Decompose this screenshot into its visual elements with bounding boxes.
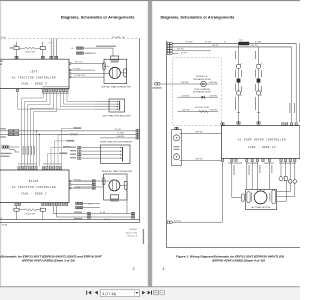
svg-text:LINE RED: LINE RED <box>195 159 204 161</box>
accessory dashed enclosure <box>173 58 222 126</box>
connector M2 right oval <box>124 181 127 189</box>
sense component c <box>288 180 292 184</box>
schematic frame right edge <box>139 39 141 223</box>
resistor R3 <box>199 110 208 112</box>
wire key input 3 to U1 <box>55 39 57 57</box>
svg-text:-LINE RED: -LINE RED <box>181 95 190 97</box>
label M3 right <box>268 193 271 202</box>
label horn <box>174 146 180 147</box>
svg-text:DISCHARGE DIODE: DISCHARGE DIODE <box>193 90 211 93</box>
svg-text:B+ 4A: B+ 4A <box>100 211 106 214</box>
svg-text:B+ RED: B+ RED <box>255 42 262 44</box>
svg-text:Diagrams, Schematics or Arrang: Diagrams, Schematics or Arrangements <box>161 15 235 20</box>
wire M2 right down <box>120 185 127 213</box>
pin A2 on U1 top <box>41 56 44 58</box>
svg-text:B+ RED: B+ RED <box>181 52 188 54</box>
encoder EN1 disc bar <box>119 101 121 111</box>
button save icon <box>160 290 165 295</box>
pin labels U3 bottom <box>228 163 242 164</box>
pin KSI on U1 top <box>50 56 53 58</box>
bottom bus 459 4A <box>0 222 140 224</box>
input dropdown divider <box>133 290 135 297</box>
bus 459 YEL <box>173 46 292 48</box>
pin row U2 top left <box>18 167 37 170</box>
motor M2 brush line 1 <box>111 181 113 191</box>
pin labels U1 bottom <box>42 93 69 94</box>
pin horn top <box>175 127 178 129</box>
svg-text:AC TRACTION CONTROLLER: AC TRACTION CONTROLLER <box>12 186 56 189</box>
wire U3 phase V pump <box>251 162 253 190</box>
label RT1 line 1 <box>1 153 12 154</box>
op-box U2 RIGHT AC TRACTION CONTROLLER <box>0 170 69 203</box>
connector CN6 <box>76 206 83 208</box>
fuse FU5 main <box>239 42 249 45</box>
connector CN1 pair b <box>80 47 83 49</box>
svg-text:LINE RED: LINE RED <box>210 110 219 112</box>
wire M1 stub right <box>120 72 126 74</box>
svg-text:459 4A: 459 4A <box>2 223 8 226</box>
svg-text:459 YEL: 459 YEL <box>251 45 258 47</box>
svg-text:CAN1 - NODE 12: CAN1 - NODE 12 <box>248 146 276 149</box>
wire U3 aux <box>269 162 271 190</box>
wire U2 right 2 <box>71 184 95 186</box>
wire CN5 out <box>83 202 100 204</box>
brake coil BRK1 <box>111 56 119 60</box>
label wire U pump <box>248 165 251 175</box>
svg-text:LEFT AC TRACTION MOTOR: LEFT AC TRACTION MOTOR <box>101 86 131 89</box>
cut label left edge a <box>0 61 3 62</box>
motor M1 brush line 2 <box>116 68 118 78</box>
button last page <box>148 291 152 295</box>
label wire 96 BLK <box>233 165 236 175</box>
svg-text:(ERP30-40VF) (A955) (Sheet 3 o: (ERP30-40VF) (A955) (Sheet 3 of 30) <box>22 259 75 263</box>
junction dot CAN L tap <box>39 134 40 135</box>
svg-text:AC PUMP MOTOR CONTROLLER: AC PUMP MOTOR CONTROLLER <box>238 139 286 142</box>
top window border <box>0 0 300 2</box>
diode D1 circle <box>201 81 207 87</box>
svg-text:LINE RED: LINE RED <box>210 95 219 97</box>
pin U1 right 2 <box>69 73 71 75</box>
wire batt 4 into dashed box <box>173 52 178 54</box>
svg-text:DISCHARGE DIODE: DISCHARGE DIODE <box>193 78 211 81</box>
label ext connector <box>153 87 162 88</box>
wire U3 to pump motor conn <box>232 162 241 198</box>
label left of FU1 <box>10 47 14 48</box>
svg-text:8504803: 8504803 <box>130 229 137 231</box>
wire far right drop <box>299 43 301 122</box>
wire pump motor temp 2 <box>277 183 295 196</box>
inline connector on CAN L <box>8 133 14 136</box>
svg-text:+LINE RED: +LINE RED <box>209 82 219 84</box>
svg-text:KYSI: KYSI <box>49 43 53 45</box>
svg-text:CAN1 - NODE 2: CAN1 - NODE 2 <box>21 193 47 196</box>
main contactor coil K1 <box>235 43 242 121</box>
pin row U2 bottom left <box>15 203 21 206</box>
connector M3 left oval <box>247 192 250 203</box>
pin U1 brake <box>69 63 71 65</box>
label BRK2 <box>110 200 119 201</box>
wire M2 phase in 2 <box>75 186 104 188</box>
wire diode D2 row <box>178 96 219 98</box>
wire U1 phase V to motor M1 <box>71 76 104 78</box>
wire U2 pin to fuse FU3 <box>16 206 18 209</box>
wire U3 right drop 1 <box>289 162 291 180</box>
svg-text:LT TRAC MTR: LT TRAC MTR <box>74 74 86 77</box>
bottom bus B+ 4A <box>0 219 140 221</box>
connector M3 ext oval <box>241 194 244 201</box>
op-box U1 LEFT AC TRACTION CONTROLLER <box>0 59 69 88</box>
motor M1 brush line 1 <box>112 68 114 78</box>
wire R2 to fuse FU4 <box>36 209 40 211</box>
wire CAN shield <box>100 137 136 139</box>
wire U1 B+ to motor connector <box>71 69 95 71</box>
cut label left edge b <box>0 64 2 65</box>
wire pump motor temp 3 <box>277 181 287 201</box>
label wire aux <box>270 165 273 173</box>
wire RT1 a <box>9 146 19 148</box>
motor M3 box <box>246 189 277 209</box>
pin bus CAN L frame <box>136 133 139 135</box>
encoder EN1 signal wires <box>95 101 119 110</box>
wire FU4 to bottom bus <box>42 211 44 219</box>
svg-text:459 YEL: 459 YEL <box>174 220 181 222</box>
horn H1 box <box>172 130 182 166</box>
svg-text:4: 4 <box>163 267 165 271</box>
wire U3 sense 2 <box>285 162 287 177</box>
wire key input 2 to U1 <box>53 39 55 57</box>
svg-text:1 KOhm 5W: 1 KOhm 5W <box>25 214 36 216</box>
connector M3 right oval <box>272 190 275 204</box>
fuse FU1 <box>14 47 19 50</box>
svg-text:459 4A B+ 4A: 459 4A B+ 4A <box>112 36 125 39</box>
wire R1 to fuse FU2 <box>36 47 40 49</box>
inline connector B+ 4A <box>87 212 90 214</box>
svg-text:POS RED: POS RED <box>73 68 81 70</box>
pin row U3 bottom <box>221 159 296 162</box>
wire from dashed bus to fuse FU1 <box>16 42 18 47</box>
pin row U3 top right <box>282 123 297 126</box>
pin B+ on U1 top <box>55 56 58 58</box>
label near bend 459 <box>74 218 82 219</box>
pin A1 on U1 top <box>15 56 18 58</box>
connector battery column <box>167 42 172 54</box>
svg-text:(ERP30-40VF) (A955) (Sheet 4 o: (ERP30-40VF) (A955) (Sheet 4 of 30) <box>212 259 265 263</box>
bus CAN H <box>0 130 136 132</box>
wire CN6 out <box>83 207 100 209</box>
inline connector on CAN H b <box>15 130 19 133</box>
page gap between page 3 and page 4 <box>148 1 153 287</box>
pin U2 right 1 <box>69 180 71 182</box>
pin U3 top left <box>221 123 224 125</box>
svg-text:CAN1 - NODE 3: CAN1 - NODE 3 <box>21 83 47 86</box>
svg-text:RIGHT TRAC MTR SPD SENSOR: RIGHT TRAC MTR SPD SENSOR <box>100 140 132 143</box>
wire U1 brake supply <box>71 63 104 65</box>
wire FU1 down to pin A1 <box>16 50 18 57</box>
label near bend B+ <box>74 212 82 213</box>
sensor SS2 signal wires <box>70 146 122 159</box>
brake coil BRK2 <box>110 195 119 199</box>
wire batt 3 <box>173 50 211 52</box>
pin end U2 right 2 <box>92 183 95 185</box>
resistor R2 1 KOhm 5W <box>25 209 36 211</box>
wire M2 phase in 1 <box>75 180 109 182</box>
label bus left edge a <box>0 128 6 129</box>
op-box U3 AC PUMP MOTOR CONTROLLER <box>222 126 300 159</box>
connector CN2 pair b <box>80 52 83 54</box>
svg-text:1 KOhm 5W: 1 KOhm 5W <box>25 52 36 54</box>
wire U2 out B+ 4A <box>53 206 131 214</box>
pin bus CAN H frame <box>136 130 139 132</box>
horn H1 lower circle <box>174 154 180 160</box>
svg-text:459 YEL: 459 YEL <box>212 45 219 47</box>
pump contactor coil K2 <box>255 47 262 122</box>
junction dot CAN H tap <box>36 130 37 131</box>
motor M2 circle <box>109 180 120 191</box>
sense component a <box>279 177 283 181</box>
svg-text:459 4A: 459 4A <box>104 218 110 221</box>
inline connector on CAN L b <box>15 133 19 136</box>
inline connector 459 4A <box>87 216 90 218</box>
toolbar background <box>0 287 300 300</box>
pin K2 to U3 <box>257 122 260 124</box>
motor M1 circle <box>109 67 120 78</box>
pin frame 459 4A <box>131 216 134 218</box>
pin row U2 top right <box>42 167 61 170</box>
harness wire labels <box>23 146 35 155</box>
wire RT1 b <box>9 150 19 152</box>
wire U2 right 1 <box>71 180 95 182</box>
vertical drawing number <box>143 229 144 244</box>
wire FU3 to resistor R2 <box>19 209 25 211</box>
svg-text:B+: B+ <box>224 42 226 44</box>
wire FU3 to bottom bus <box>16 211 18 219</box>
button print icon <box>154 290 159 295</box>
label wire W pump <box>258 165 261 173</box>
label BRK1 <box>111 61 119 62</box>
svg-text:3: 3 <box>133 267 135 271</box>
motor M2 box <box>104 174 128 200</box>
sense component d <box>293 180 297 184</box>
motor M2 brush line 2 <box>116 181 118 191</box>
wire U3 sense 1 <box>280 162 282 177</box>
wire diode D1 row <box>178 83 219 85</box>
svg-text:RIGHT: RIGHT <box>29 180 39 183</box>
fuse FU2 <box>40 47 45 50</box>
svg-text:AC PUMP MOTOR: AC PUMP MOTOR <box>252 206 271 209</box>
svg-text:B+: B+ <box>0 218 2 220</box>
sensor SS2 disc bar <box>122 147 124 162</box>
right schematic frame left edge <box>166 41 168 248</box>
svg-text:5V DC/DC CONV: 5V DC/DC CONV <box>195 107 211 109</box>
svg-text:CAN RED: CAN RED <box>117 135 126 138</box>
wire CN2 stub <box>84 52 96 54</box>
sensor SS2 box <box>101 145 131 164</box>
svg-text:B+ RED: B+ RED <box>205 42 212 44</box>
svg-text:Revision: B: Revision: B <box>127 236 137 238</box>
motor M3 terminals <box>256 189 258 192</box>
pin U2 right 3 <box>69 187 71 189</box>
button previous page <box>95 291 98 295</box>
bus CAN L <box>0 133 136 135</box>
svg-text:459 YEL: 459 YEL <box>177 49 184 51</box>
wire FU2 to dashed bus <box>42 42 44 47</box>
svg-text:+LINE RED: +LINE RED <box>180 82 190 84</box>
encoder EN1 box <box>109 99 125 112</box>
wire horn upper to U3 <box>180 133 222 135</box>
pin U2 right 2 <box>69 184 71 186</box>
wire FU1 to resistor R1 <box>19 47 25 49</box>
inline connector on CAN H <box>8 130 14 133</box>
labels right drops <box>289 103 295 113</box>
page number input box <box>100 290 139 297</box>
wire U3 right drop 2 <box>294 162 296 180</box>
motor M1 box <box>104 59 127 83</box>
wire harness U1 to U2 <box>18 92 96 167</box>
battery supply dashed line B+ (top) <box>0 38 140 40</box>
pin row U1 bottom <box>16 89 68 92</box>
svg-text:B+ RED: B+ RED <box>186 42 193 44</box>
label RT1 line 2 <box>1 156 10 157</box>
wire B+ right drop <box>295 43 297 122</box>
wire M1 stub left <box>104 65 109 67</box>
button first page <box>86 291 91 295</box>
svg-text:LINE RED: LINE RED <box>182 110 191 112</box>
wire resistor R3 row <box>178 110 219 112</box>
svg-text:Sheet 3 of 30: Sheet 3 of 30 <box>126 231 137 234</box>
left page edge shading <box>0 1 1 287</box>
svg-text:LEFT TRAC MTR ENCODER: LEFT TRAC MTR ENCODER <box>102 114 131 117</box>
svg-text:LEFT: LEFT <box>30 70 38 73</box>
label bus left edge b <box>0 136 6 137</box>
fuse FU3 <box>14 208 19 211</box>
wire pump motor temp 1 <box>277 183 290 191</box>
pin end U2 right 1 <box>92 180 95 182</box>
wire staircase net labels U2 <box>48 127 82 166</box>
wire horn lower to U3 <box>180 160 222 162</box>
pin U1 right 1 <box>69 69 71 71</box>
motor M3 circle <box>254 191 267 204</box>
wire ext connector into box <box>160 83 177 85</box>
wire key input 1 to U1 <box>50 39 52 57</box>
connector CN2 pair a <box>76 52 79 54</box>
pin CAN shield frame <box>136 137 139 139</box>
pin labels U2 top <box>18 163 37 164</box>
diode D2 <box>201 96 204 99</box>
button next page <box>142 291 145 295</box>
pin frame B+ 4A <box>131 212 134 214</box>
pin row U2 bottom right <box>42 203 68 206</box>
toolbar top border <box>0 286 300 288</box>
connector M2 left oval <box>102 178 105 185</box>
connector ext pair <box>155 83 160 85</box>
wire U2 out 459 4A <box>57 206 131 217</box>
svg-text:3 (7 / 44): 3 (7 / 44) <box>102 292 116 296</box>
svg-text:RIGHT AC TRACTION MOTOR: RIGHT AC TRACTION MOTOR <box>102 170 133 173</box>
wire CN1 to brake coil BRK1 <box>84 48 113 56</box>
sense component b <box>284 177 287 181</box>
pin K1 to U3 <box>237 122 240 124</box>
horn H1 upper circle <box>174 135 180 141</box>
wire U2 right 3 <box>71 187 95 189</box>
fuse FU4 <box>40 208 45 211</box>
svg-text:PUMP CLAMPING: PUMP CLAMPING <box>194 88 210 91</box>
wire FU2 down to pin A2 <box>42 50 44 57</box>
connector RT1 temp sensor <box>2 146 9 148</box>
wire U3 phase U pump <box>246 162 248 190</box>
svg-text:Diagrams, Schematics or Arrang: Diagrams, Schematics or Arrangements <box>61 15 135 20</box>
connector CN1 pair a <box>76 47 79 49</box>
wire U3 to frame pin 459 <box>172 162 223 223</box>
svg-text:BRK COIL: BRK COIL <box>75 62 83 64</box>
wire U1 phase U to motor M1 <box>71 73 109 75</box>
bus B+ RED <box>173 42 297 44</box>
right schematic frame bottom edge <box>167 247 300 249</box>
connector M1 right oval <box>124 69 127 77</box>
pin U1 right 3 <box>69 76 71 78</box>
label M3 left <box>250 193 253 202</box>
input dropdown arrow <box>135 292 138 294</box>
resistor R1 1 KOhm 5W <box>25 47 36 49</box>
svg-text:459 YEL: 459 YEL <box>115 129 122 131</box>
svg-text:LINE RED: LINE RED <box>195 132 204 134</box>
svg-text:AC TRACTION CONTROLLER: AC TRACTION CONTROLLER <box>12 76 56 79</box>
label above brake wire <box>96 46 116 47</box>
pin end U2 right 3 <box>92 187 95 189</box>
connector CN5 <box>76 202 83 204</box>
wire 459 right drop <box>291 47 293 122</box>
svg-text:B+ RED: B+ RED <box>118 133 125 135</box>
pin frame 459 YEL lower <box>167 221 172 223</box>
wire U3 phase W pump <box>257 162 259 190</box>
connector M1 left oval <box>103 63 106 70</box>
